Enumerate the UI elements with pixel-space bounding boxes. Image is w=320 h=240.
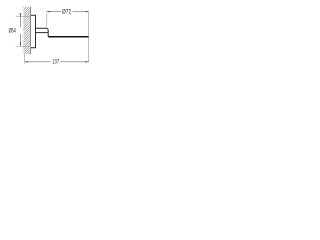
wall face line <box>30 7 32 54</box>
svg-text:Ø54: Ø54 <box>9 28 17 35</box>
dim Ø72: arrowheads <box>47 11 50 13</box>
dim Ø54: extension lines <box>16 16 31 18</box>
svg-text:107: 107 <box>52 59 59 66</box>
dish (edge-on, thick line) <box>48 36 88 38</box>
arm (top edge, rounded right end, to dish) <box>36 28 49 36</box>
dim Ø72: dimension line with text gap <box>47 11 61 13</box>
escutcheon (wall plate, side view) <box>31 15 36 48</box>
wall hatch <box>23 7 30 54</box>
dim 107: dimension line with text gap <box>25 61 51 63</box>
svg-text:Ø72: Ø72 <box>62 9 72 16</box>
dim 107: arrowheads <box>25 61 28 63</box>
arm bottom edge <box>36 32 49 34</box>
dim Ø54: arrowheads <box>20 13 22 17</box>
dim 107: extension line (left) <box>24 54 26 63</box>
dim Ø54: dimension line with text gap <box>19 13 21 27</box>
dim Ø72: extension lines <box>46 13 48 27</box>
